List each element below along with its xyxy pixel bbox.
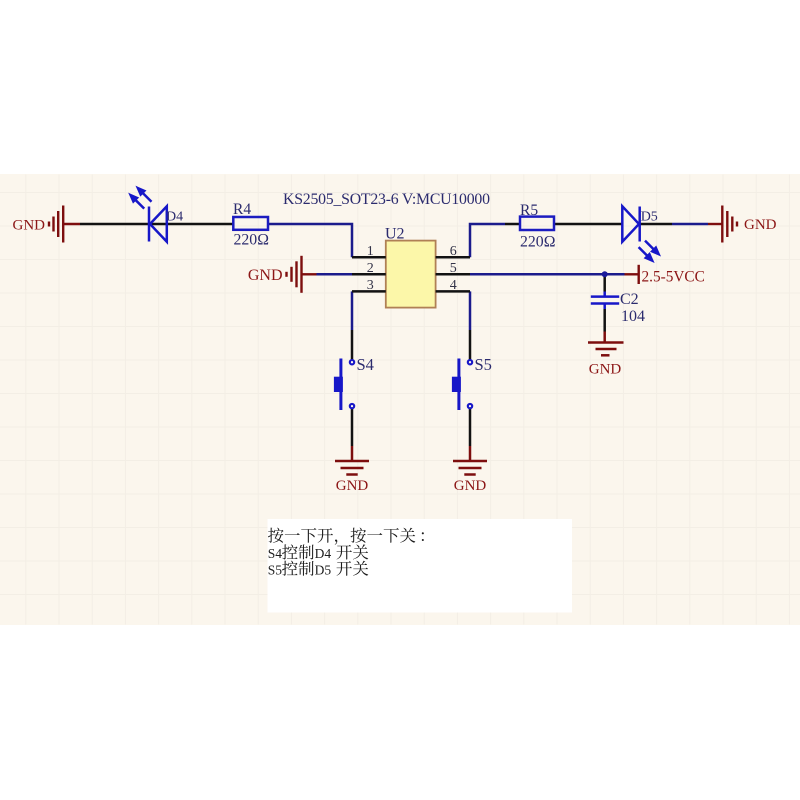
capacitor C2 bbox=[591, 295, 619, 298]
power port GND left bbox=[49, 206, 80, 243]
svg-text:S5: S5 bbox=[268, 563, 283, 578]
svg-text:GND: GND bbox=[589, 362, 622, 378]
wire: mid GND to pin 2 bbox=[317, 273, 353, 276]
wire: pin 3 down to S4 bbox=[351, 291, 354, 330]
power port GND mid (pin 2) bbox=[287, 256, 317, 293]
wire: D4 to R4 bbox=[149, 223, 233, 226]
svg-text:6: 6 bbox=[450, 244, 457, 259]
svg-text:2: 2 bbox=[367, 261, 374, 276]
pin 3 bbox=[352, 290, 386, 293]
svg-text:2.5-5VCC: 2.5-5VCC bbox=[642, 269, 705, 286]
IC U2 bbox=[386, 241, 436, 308]
earth ground below C2 bbox=[588, 332, 624, 356]
junction node VCC/C2 bbox=[602, 271, 608, 277]
svg-text:U2: U2 bbox=[385, 226, 405, 243]
svg-text:S5: S5 bbox=[475, 355, 492, 374]
svg-text:D4: D4 bbox=[166, 209, 183, 224]
power port 2.5-5VCC bbox=[625, 273, 638, 275]
wire: to R5 left bbox=[505, 223, 520, 226]
svg-text:3: 3 bbox=[367, 278, 374, 293]
wire: D5 to right GND bbox=[640, 223, 672, 226]
svg-text:5: 5 bbox=[450, 261, 457, 276]
svg-text:104: 104 bbox=[621, 308, 645, 325]
wire: pin6 vertical already drawn; resistor R5 bbox=[520, 217, 554, 230]
D4 emission arrows bbox=[131, 188, 152, 209]
wire: R4 to corner above pin 1 bbox=[268, 224, 352, 257]
svg-text:GND: GND bbox=[248, 267, 283, 284]
svg-text:C2: C2 bbox=[620, 291, 639, 308]
svg-text:R5: R5 bbox=[520, 202, 538, 219]
svg-text:GND: GND bbox=[744, 217, 777, 233]
svg-text:D5: D5 bbox=[641, 209, 658, 224]
earth ground below S4 bbox=[335, 446, 369, 475]
wire: left GND to D4 bbox=[80, 223, 149, 226]
resistor R4 bbox=[233, 217, 268, 230]
svg-text:R4: R4 bbox=[233, 201, 251, 218]
pin 5 bbox=[436, 273, 470, 276]
svg-text:KS2505_SOT23-6 V:MCU10000: KS2505_SOT23-6 V:MCU10000 bbox=[283, 191, 490, 208]
svg-text:1: 1 bbox=[367, 244, 374, 259]
pin 2 bbox=[352, 273, 386, 276]
pin 6 bbox=[436, 256, 470, 259]
svg-text:4: 4 bbox=[450, 278, 457, 293]
D5 emission arrows bbox=[639, 241, 659, 261]
switch S4 bbox=[350, 360, 354, 408]
note text line 2 bbox=[268, 544, 369, 561]
svg-text:S4: S4 bbox=[357, 355, 374, 374]
LED D4 bbox=[149, 206, 167, 241]
svg-text:D4: D4 bbox=[315, 546, 332, 561]
note text white backdrop bbox=[268, 519, 573, 613]
wire: R5 to D5 bbox=[554, 223, 622, 226]
svg-text:220Ω: 220Ω bbox=[520, 233, 555, 250]
svg-text:GND: GND bbox=[454, 478, 487, 494]
power port GND right bbox=[708, 206, 737, 243]
svg-text:S4: S4 bbox=[268, 546, 283, 561]
note text line 3 bbox=[268, 561, 369, 578]
wire: S4 bottom to ground bbox=[351, 409, 354, 446]
LED D5 bbox=[622, 206, 639, 241]
svg-text:GND: GND bbox=[336, 478, 369, 494]
note text line 1 bbox=[268, 528, 424, 545]
svg-text:GND: GND bbox=[13, 218, 46, 234]
wire: S5 bottom to ground bbox=[469, 409, 472, 446]
pin 1 bbox=[352, 256, 386, 259]
wire: pin 4 down to S5 bbox=[469, 291, 472, 330]
earth ground below S5 bbox=[453, 446, 487, 475]
pin 4 bbox=[436, 290, 470, 293]
switch S5 bbox=[468, 360, 472, 408]
svg-text:220Ω: 220Ω bbox=[234, 232, 269, 249]
wire: pin 5 to VCC rail bbox=[470, 273, 625, 276]
wire: corner above pin 6 to R5 bbox=[470, 224, 505, 257]
wire: C2 branch from junction bbox=[603, 274, 606, 291]
svg-text:D5: D5 bbox=[315, 563, 332, 578]
